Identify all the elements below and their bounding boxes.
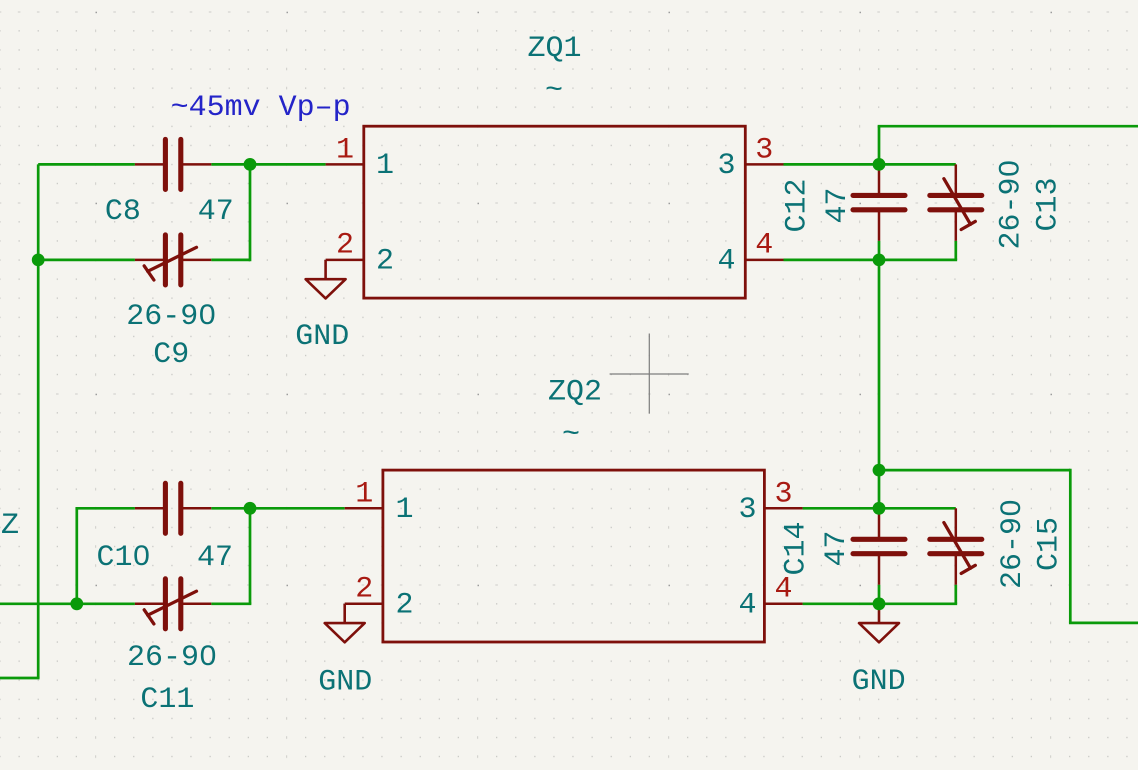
wire ZQ1 pin 4 to node C <box>784 259 880 262</box>
svg-text:GND: GND <box>852 665 906 699</box>
capacitor C13 top lead <box>955 164 958 193</box>
svg-text:GND: GND <box>318 666 372 700</box>
ZQ1 pin 2 <box>326 259 364 262</box>
wire C11 row left <box>77 602 135 605</box>
capacitor C11 trimmer tick <box>144 610 154 624</box>
wire ZQ2 pin 4 to node H <box>803 602 879 605</box>
svg-text:4: 4 <box>774 573 792 607</box>
svg-text:3: 3 <box>774 478 792 512</box>
capacitor C9 trimmer tick <box>144 266 154 280</box>
capacitor C14 top plate <box>853 537 905 542</box>
wire top-right exit <box>878 125 1138 128</box>
capacitor C9 left lead <box>135 259 164 262</box>
ground symbol GND1 at ZQ1 pin 2 <box>306 260 346 299</box>
wire node F down to node G <box>878 470 881 508</box>
capacitor C12 top plate <box>853 193 905 198</box>
ZQ1 pin 3 <box>745 163 783 166</box>
wire node D up to C10 row <box>75 508 78 604</box>
junction node F <box>873 464 886 477</box>
svg-text:~: ~ <box>562 418 580 452</box>
capacitor C9 right plate <box>178 235 183 285</box>
capacitor C9 left plate <box>163 235 168 285</box>
svg-text:2: 2 <box>376 245 394 279</box>
capacitor C10 left lead <box>135 507 164 510</box>
junction node H <box>873 597 886 610</box>
capacitor C10 left plate <box>163 483 168 533</box>
capacitor C13 trimmer tick <box>961 221 975 229</box>
svg-text:26-90: 26-90 <box>996 499 1030 589</box>
wire left entry to node D <box>0 602 77 605</box>
wire node B riser <box>878 126 881 164</box>
wire node E down to C11 row <box>249 508 252 604</box>
wire C8 to node A <box>211 163 250 166</box>
capacitor C15 bottom lead <box>955 556 958 585</box>
svg-text:47: 47 <box>821 187 855 223</box>
capacitor C13 top plate <box>930 193 982 198</box>
wire bottom-right exit <box>1069 622 1138 625</box>
svg-text:4: 4 <box>738 589 756 623</box>
svg-text:~45mv Vp–p: ~45mv Vp–p <box>171 91 351 125</box>
capacitor C15 top plate <box>930 537 982 542</box>
wire C14 bottom to node H <box>878 585 881 604</box>
capacitor C13 bottom plate <box>930 207 982 212</box>
ground symbol GND3 at C14/C15 <box>859 604 899 643</box>
svg-text:1: 1 <box>395 493 413 527</box>
svg-text:C13: C13 <box>1032 177 1066 231</box>
capacitor C15 bottom plate <box>930 551 982 556</box>
wire C8 row left <box>38 163 135 166</box>
svg-text:47: 47 <box>198 195 234 229</box>
svg-text:2: 2 <box>355 573 373 607</box>
wire node E to ZQ2 pin 1 <box>250 507 345 510</box>
svg-text:C11: C11 <box>140 683 194 717</box>
junction node G <box>873 502 886 515</box>
ZQ2 pin 4 <box>764 603 802 606</box>
wire node G to C15 top <box>879 507 956 510</box>
svg-text:C14: C14 <box>780 521 814 575</box>
capacitor C8 right lead <box>182 163 211 166</box>
ZQ2 pin 1 <box>345 507 383 510</box>
junction node D <box>70 597 83 610</box>
svg-text:47: 47 <box>197 541 233 575</box>
wire C10 to node E <box>211 507 250 510</box>
capacitor C8 left plate <box>163 139 168 189</box>
capacitor C11 left plate <box>163 579 168 629</box>
wire C9 row right <box>211 259 250 262</box>
capacitor C9 trimmer arrow <box>148 247 197 271</box>
svg-text:ZQ1: ZQ1 <box>527 32 581 66</box>
svg-text:3: 3 <box>717 149 735 183</box>
capacitor C11 right lead <box>182 603 211 606</box>
svg-text:47: 47 <box>820 530 854 566</box>
svg-text:3: 3 <box>755 134 773 168</box>
wire C15 bottom drop <box>954 585 957 604</box>
svg-text:2: 2 <box>336 229 354 263</box>
capacitor C11 left lead <box>135 603 164 606</box>
junction node C <box>873 254 886 267</box>
capacitor C13 bottom lead <box>955 212 958 241</box>
capacitor C12 bottom plate <box>853 207 905 212</box>
capacitor C15 top lead <box>955 508 958 537</box>
wire C11 row right <box>211 602 251 605</box>
ZQ1 pin 4 <box>745 259 783 262</box>
capacitor C12 top lead <box>878 164 881 193</box>
capacitor C11 right plate <box>178 579 183 629</box>
svg-text:26-90: 26-90 <box>126 300 216 334</box>
svg-text:26-90: 26-90 <box>995 159 1029 249</box>
wire C12 bottom to node C <box>878 241 881 260</box>
svg-text:C12: C12 <box>781 178 815 232</box>
wire right column down <box>1069 469 1072 623</box>
wire C13 bottom drop <box>954 241 957 260</box>
capacitor C11 trimmer arrow <box>148 591 197 615</box>
svg-text:C9: C9 <box>153 338 189 372</box>
capacitor C15 trimmer arrow <box>944 523 971 569</box>
crystal oscillator ZQ2 body <box>383 470 765 642</box>
wire node F to right column <box>879 469 1070 472</box>
wire node B to C13 top <box>879 163 956 166</box>
capacitor C14 top lead <box>878 508 881 537</box>
junction node E <box>244 502 257 515</box>
svg-text:26-90: 26-90 <box>127 641 217 675</box>
svg-text:Z: Z <box>1 509 19 543</box>
wire C9 column up to node A <box>249 164 252 261</box>
wire node C down to node F <box>878 260 881 470</box>
capacitor C15 trimmer tick <box>961 565 975 573</box>
capacitor C10 right lead <box>182 507 211 510</box>
ZQ2 pin 3 <box>764 507 802 510</box>
crosshair cursor marker <box>610 334 689 414</box>
wire bottom-left exit <box>0 677 40 680</box>
zero glyph dot masks <box>203 310 210 320</box>
capacitor C14 bottom lead <box>878 556 881 585</box>
wire C9 row left <box>38 259 135 262</box>
junction node B <box>873 158 886 171</box>
capacitor C14 bottom plate <box>853 551 905 556</box>
crystal oscillator ZQ1 body <box>364 126 746 298</box>
capacitor C8 left lead <box>135 163 164 166</box>
capacitor C9 right lead <box>182 259 211 262</box>
svg-text:C15: C15 <box>1033 517 1067 571</box>
capacitor C13 trimmer arrow <box>944 179 971 225</box>
capacitor C12 bottom lead <box>878 212 881 241</box>
wire node A to ZQ1 pin 1 <box>250 163 326 166</box>
wire ZQ2 pin 3 to node G <box>803 507 879 510</box>
wire C13 bottom to node C <box>879 259 957 262</box>
ground symbol GND2 at ZQ2 pin 2 <box>325 604 365 643</box>
wire C10 row left <box>75 507 134 510</box>
ZQ1 pin 1 <box>326 163 364 166</box>
capacitor C10 right plate <box>178 483 183 533</box>
svg-text:4: 4 <box>717 245 735 279</box>
junction node A <box>244 158 257 171</box>
capacitor C8 right plate <box>178 139 183 189</box>
wire C15 bottom to node H <box>879 602 957 605</box>
svg-text:3: 3 <box>738 493 756 527</box>
svg-text:1: 1 <box>376 149 394 183</box>
svg-text:4: 4 <box>755 229 773 263</box>
svg-text:1: 1 <box>336 134 354 168</box>
svg-text:GND: GND <box>295 320 349 354</box>
svg-text:1: 1 <box>355 478 373 512</box>
wire ZQ1 pin 3 to node B <box>784 163 880 166</box>
svg-text:~: ~ <box>545 74 563 108</box>
junction C9 row left <box>32 254 45 267</box>
svg-text:2: 2 <box>395 589 413 623</box>
wire left vertical bus <box>37 164 40 678</box>
svg-text:C8: C8 <box>105 195 141 229</box>
svg-text:ZQ2: ZQ2 <box>548 376 602 410</box>
ZQ2 pin 2 <box>345 603 383 606</box>
